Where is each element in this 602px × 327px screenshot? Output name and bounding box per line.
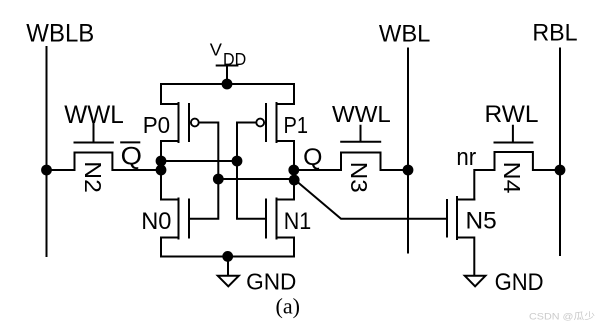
svg-text:P1: P1 bbox=[284, 112, 309, 138]
svg-text:WWL: WWL bbox=[332, 101, 391, 127]
svg-text:V: V bbox=[210, 39, 223, 59]
svg-text:RWL: RWL bbox=[485, 101, 539, 128]
svg-text:N4: N4 bbox=[499, 162, 525, 194]
svg-text:RBL: RBL bbox=[532, 20, 577, 47]
svg-text:CSDN @瓜少: CSDN @瓜少 bbox=[529, 312, 596, 323]
svg-text:GND: GND bbox=[495, 269, 544, 296]
svg-text:P0: P0 bbox=[143, 112, 170, 138]
svg-text:N1: N1 bbox=[284, 208, 312, 235]
svg-text:N0: N0 bbox=[141, 208, 171, 235]
svg-text:Q: Q bbox=[121, 144, 142, 171]
svg-text:N2: N2 bbox=[80, 161, 106, 193]
svg-text:nr: nr bbox=[456, 144, 476, 171]
svg-text:WBL: WBL bbox=[379, 20, 431, 47]
svg-text:N3: N3 bbox=[346, 162, 372, 193]
svg-text:N5: N5 bbox=[466, 208, 497, 235]
svg-text:Q: Q bbox=[303, 144, 322, 171]
svg-text:GND: GND bbox=[246, 268, 296, 294]
svg-text:WWL: WWL bbox=[64, 101, 124, 129]
svg-text:WBLB: WBLB bbox=[26, 20, 94, 48]
svg-text:DD: DD bbox=[223, 49, 246, 69]
svg-text:(a): (a) bbox=[276, 294, 301, 319]
